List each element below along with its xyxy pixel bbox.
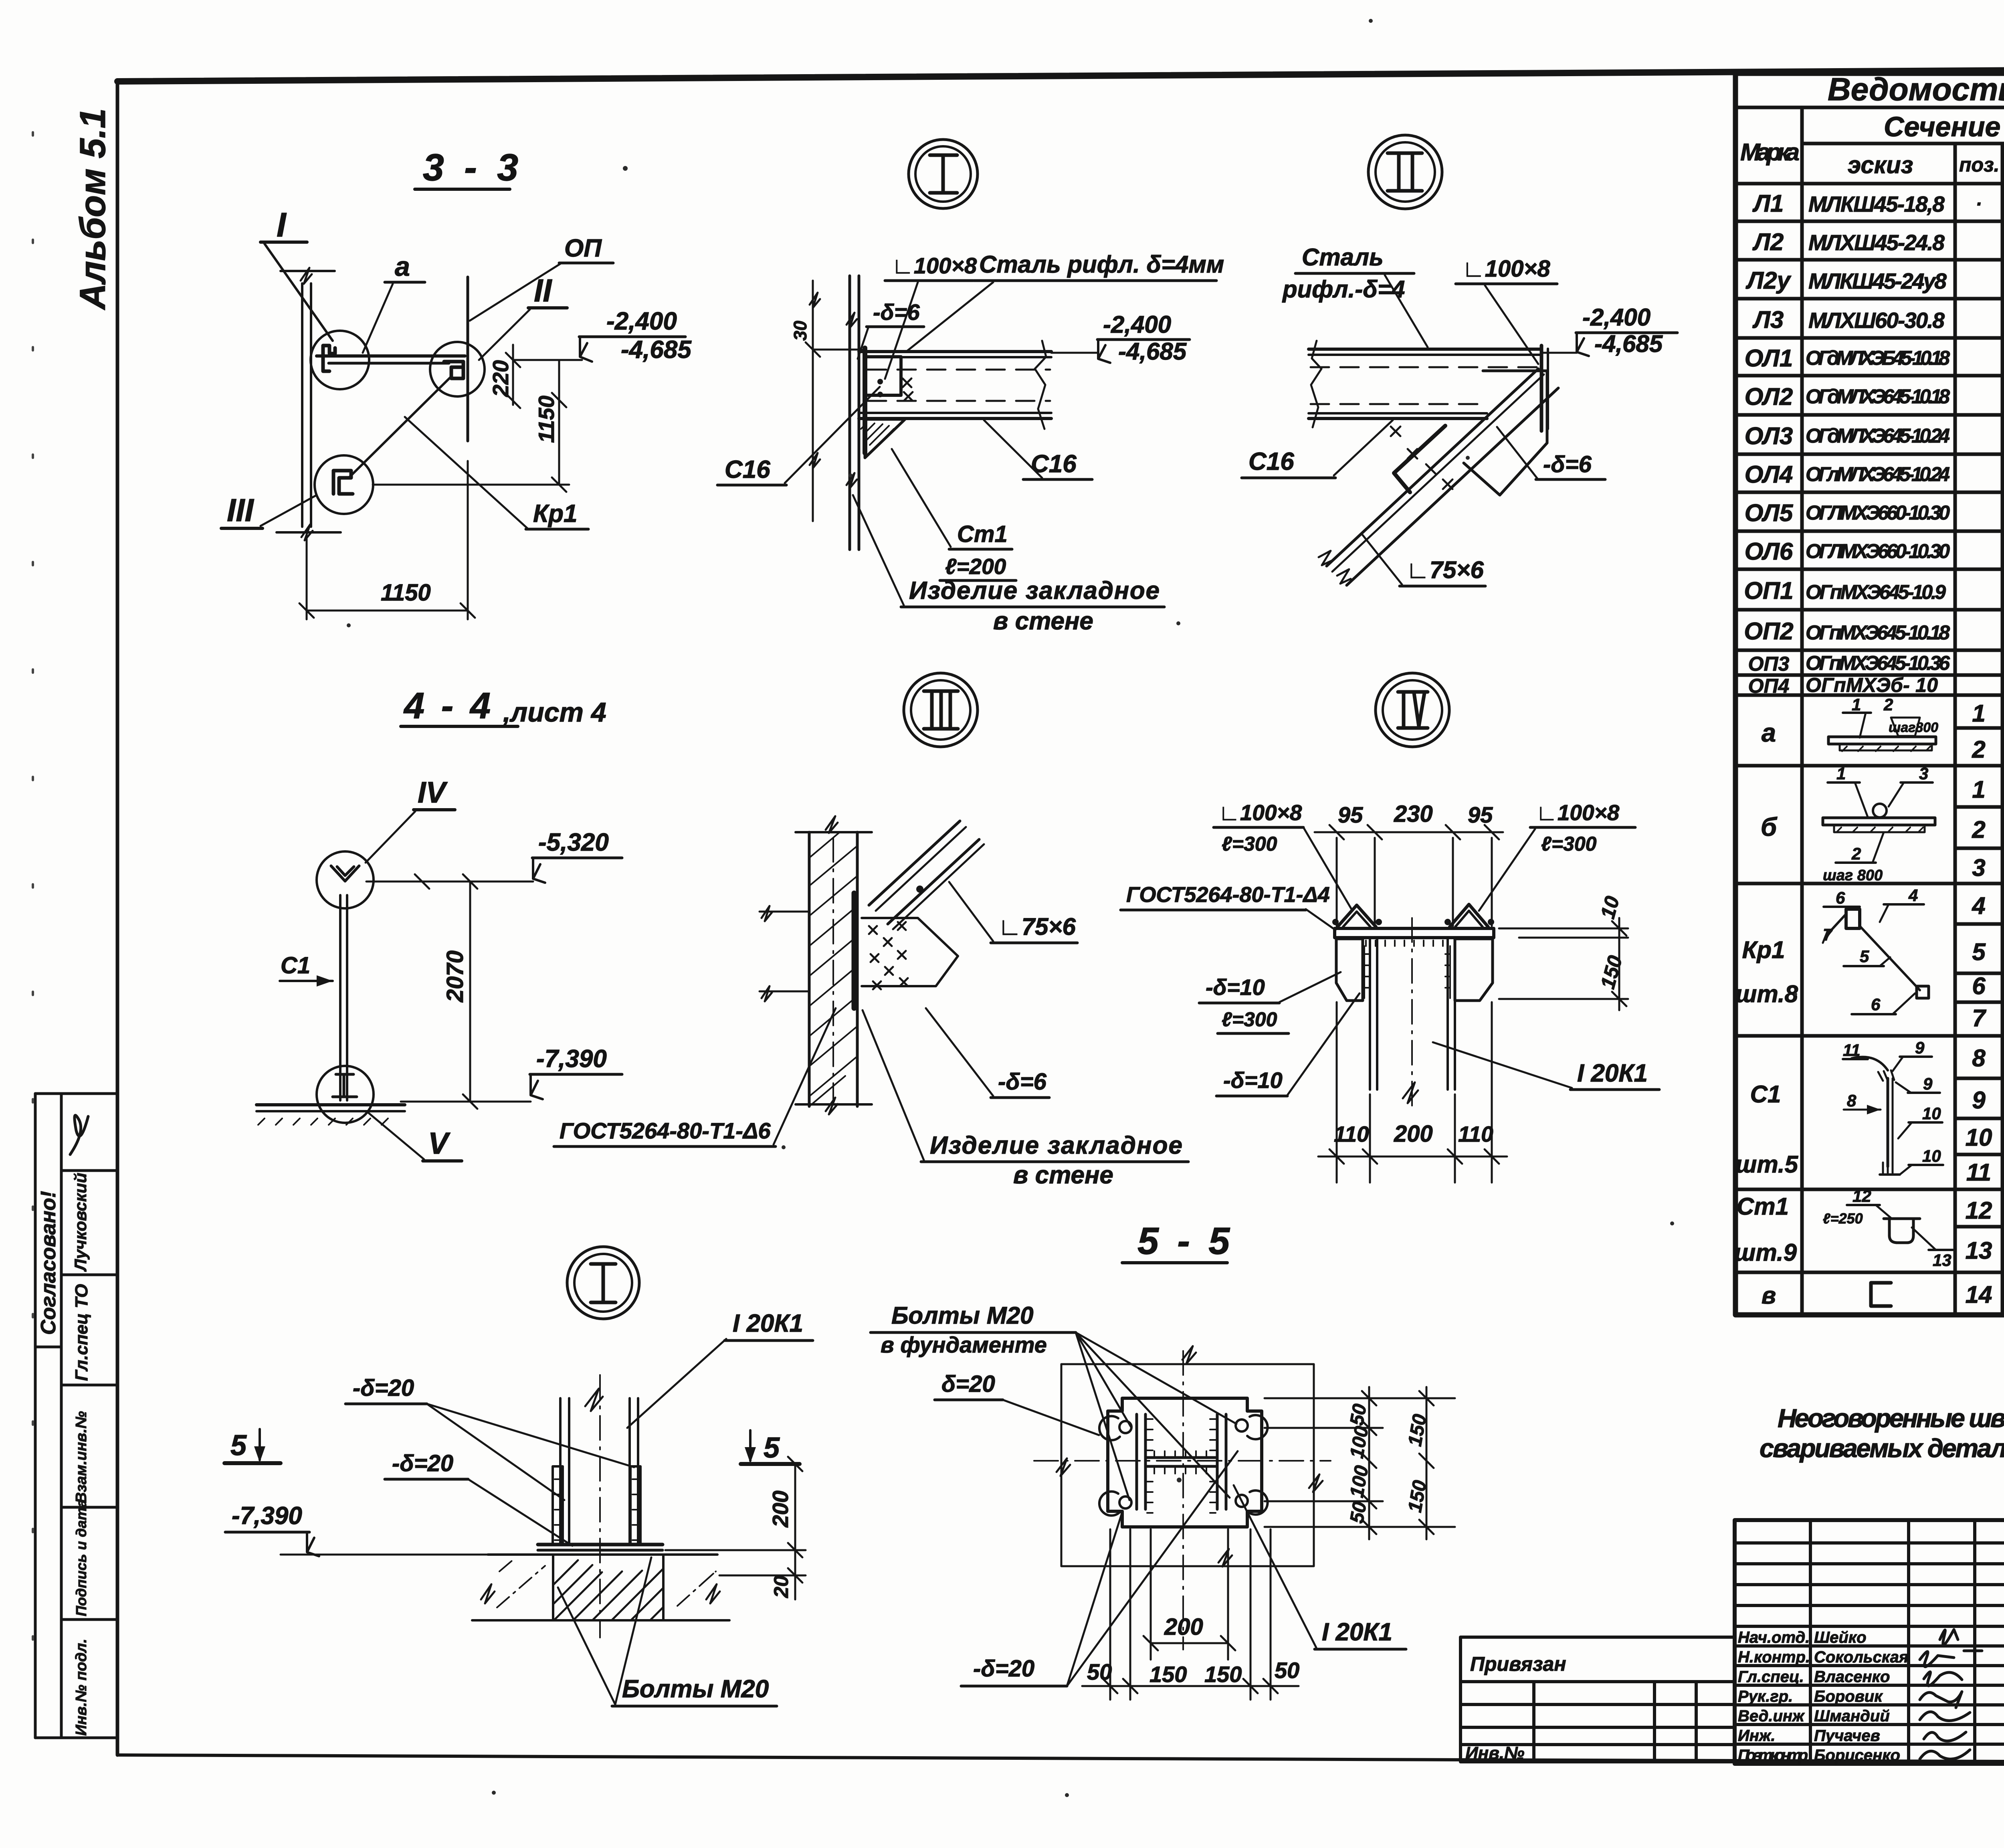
detail II top	[1242, 135, 1677, 586]
svg-text:2070: 2070	[442, 950, 468, 1003]
svg-text:III: III	[227, 492, 254, 528]
outer border	[1735, 73, 2004, 1315]
detail circle III	[904, 673, 978, 747]
svg-text:-4,685: -4,685	[1118, 338, 1187, 365]
left page edge dashes	[32, 132, 34, 1676]
svg-text:9: 9	[1972, 1087, 1986, 1114]
svg-text:1: 1	[1852, 695, 1861, 714]
svg-text:С1: С1	[281, 952, 310, 979]
plate	[1335, 928, 1494, 938]
gusset console below beam	[865, 419, 905, 458]
detail III	[760, 673, 1188, 1189]
svg-text:-δ=6: -δ=6	[998, 1069, 1047, 1095]
svg-text:50: 50	[1087, 1659, 1112, 1684]
bottom beam	[257, 1103, 405, 1106]
gusset	[862, 918, 958, 986]
svg-text:3 - 3: 3 - 3	[423, 146, 523, 189]
svg-text:30: 30	[790, 321, 810, 341]
svg-text:I 20К1: I 20К1	[1322, 1618, 1392, 1646]
svg-text:Боровик: Боровик	[1814, 1688, 1883, 1705]
svg-text:-4,685: -4,685	[621, 336, 692, 364]
title row bottom	[1735, 106, 2004, 109]
svg-text:ОП3: ОП3	[1748, 653, 1790, 675]
svg-text:Кр1: Кр1	[1742, 936, 1785, 963]
svg-text:ОГпМХЭб- 10: ОГпМХЭб- 10	[1806, 674, 1938, 696]
table sketch row Kr1	[1823, 886, 1929, 1014]
svg-text:220: 220	[488, 360, 513, 397]
svg-text:Л1: Л1	[1752, 190, 1784, 217]
svg-text:1: 1	[1836, 764, 1846, 783]
svg-text:150: 150	[1149, 1662, 1187, 1687]
svg-text:δ=20: δ=20	[941, 1371, 995, 1397]
gusset plate -d=6	[1464, 371, 1547, 495]
base plate	[538, 1543, 663, 1547]
svg-text:Согласовано!: Согласовано!	[37, 1191, 60, 1335]
I beam cross-section	[1135, 1414, 1138, 1509]
svg-text:200: 200	[1164, 1614, 1203, 1640]
table sketch row a	[1828, 695, 1938, 751]
dim 220	[512, 345, 514, 405]
svg-text:б: б	[1761, 812, 1778, 841]
table data : eskiz column texts	[1806, 192, 1950, 696]
svg-text:ℓ=200: ℓ=200	[945, 554, 1006, 579]
svg-text:200: 200	[768, 1490, 793, 1528]
privyazan table	[1461, 1637, 1735, 1762]
svg-text:14: 14	[1966, 1281, 1992, 1308]
svg-text:I: I	[277, 206, 287, 244]
svg-text:5: 5	[1860, 947, 1869, 966]
svg-text:10: 10	[1922, 1104, 1941, 1123]
detail circle I	[567, 1247, 639, 1319]
center lines	[1182, 1351, 1184, 1650]
svg-text:1: 1	[1972, 700, 1985, 727]
svg-text:∟100×8: ∟100×8	[1462, 256, 1550, 282]
svg-text:ℓ=300: ℓ=300	[1222, 1008, 1277, 1031]
svg-text:Болты М20: Болты М20	[891, 1302, 1033, 1329]
svg-text:-δ=20: -δ=20	[392, 1450, 453, 1476]
svg-text:10: 10	[1922, 1146, 1941, 1165]
svg-text:ℓ=300: ℓ=300	[1222, 833, 1277, 855]
angle clip on diagonal	[1394, 426, 1445, 492]
svg-text:С16: С16	[725, 456, 770, 483]
anchor plates	[553, 1466, 563, 1544]
I beam verticals	[1369, 938, 1371, 1090]
svg-text:∟75×6: ∟75×6	[998, 913, 1076, 940]
svg-text:Н.контр.: Н.контр.	[1738, 1648, 1810, 1666]
wall axis dash-dot	[832, 838, 834, 1100]
bottom joint circle	[317, 1066, 374, 1123]
svg-text:Изделие закладное: Изделие закладное	[909, 577, 1160, 605]
svg-text:Неоговоренные швы принять п: Неоговоренные швы принять по наименьшей …	[1778, 1403, 2004, 1433]
svg-text:ОГЛМХЭ660-10.30: ОГЛМХЭ660-10.30	[1806, 501, 1950, 524]
svg-text:ОП1: ОП1	[1744, 577, 1793, 604]
weld crosses	[869, 922, 908, 989]
detail circle II	[1368, 135, 1442, 209]
detail IV	[1121, 673, 1659, 1183]
svg-text:50: 50	[1275, 1658, 1299, 1683]
svg-text:Вед.инж: Вед.инж	[1738, 1707, 1805, 1725]
svg-text:8: 8	[1972, 1045, 1986, 1072]
svg-text:Изделие закладное: Изделие закладное	[930, 1132, 1182, 1159]
table data : marka column	[1734, 190, 1799, 1309]
diagonal Kr1	[349, 377, 451, 477]
svg-text:Ведомость: Ведомость	[1828, 71, 2004, 107]
svg-text:ОГпМХЭ645-10.36: ОГпМХЭ645-10.36	[1806, 652, 1950, 674]
svg-text:-7,390: -7,390	[232, 1502, 302, 1530]
svg-text:МЛХШ60-30.8: МЛХШ60-30.8	[1808, 308, 1945, 333]
svg-text:II: II	[534, 273, 552, 308]
svg-text:ОГлМЛХЭ645-10.24: ОГлМЛХЭ645-10.24	[1806, 463, 1950, 485]
svg-text:230: 230	[1394, 801, 1433, 827]
svg-text:2: 2	[1972, 736, 1985, 763]
svg-text:ОЛ1: ОЛ1	[1745, 345, 1793, 372]
svg-text:I 20К1: I 20К1	[733, 1310, 803, 1337]
svg-text:Пучачев: Пучачев	[1814, 1727, 1880, 1745]
beam channel horizontal	[1309, 348, 1541, 351]
left stamp strip	[35, 1094, 117, 1738]
svg-text:1150: 1150	[381, 580, 431, 606]
svg-text:95: 95	[1468, 802, 1493, 827]
joint circle 2	[430, 342, 485, 396]
svg-text:7: 7	[1972, 1005, 1986, 1031]
svg-text:-δ=10: -δ=10	[1223, 1068, 1283, 1093]
svg-text:а: а	[1762, 718, 1776, 747]
svg-text:-7,390: -7,390	[536, 1045, 607, 1073]
svg-text:ОГдМЛХЭ645-10.18: ОГдМЛХЭ645-10.18	[1806, 385, 1950, 408]
svg-text:ОЛ2: ОЛ2	[1745, 383, 1793, 410]
svg-text:Привязан: Привязан	[1470, 1653, 1566, 1675]
top dims 95 230 95	[1315, 831, 1503, 833]
header mid line under Сечение / Опорные усилия	[1802, 142, 2004, 146]
svg-text:,лист 4: ,лист 4	[503, 697, 606, 728]
table sketch row v	[1871, 1283, 1891, 1306]
svg-text:Шмандий: Шмандий	[1814, 1707, 1890, 1725]
svg-text:10: 10	[1596, 894, 1624, 921]
svg-text:в стене: в стене	[993, 607, 1093, 635]
left angle clip	[1337, 905, 1376, 927]
svg-text:ОГпМХЭ645-10.18: ОГпМХЭ645-10.18	[1806, 621, 1950, 644]
svg-text:свариваемых деталей.: свариваемых деталей.	[1760, 1434, 2004, 1463]
svg-text:шаг 800: шаг 800	[1823, 867, 1883, 884]
table data : poz + sostav columns	[1976, 194, 2004, 696]
floor break lines	[760, 911, 809, 913]
svg-text:3: 3	[1972, 854, 1985, 881]
beam horizontal	[317, 354, 465, 358]
elements table : grid	[1735, 73, 2004, 1315]
anchor bolts	[1119, 1421, 1131, 1433]
svg-text:ОЛ3: ОЛ3	[1745, 423, 1793, 449]
column shaft	[559, 1398, 562, 1544]
svg-text:50: 50	[1346, 1402, 1371, 1427]
svg-text:-2,400: -2,400	[1582, 304, 1650, 331]
svg-text:Сокольская: Сокольская	[1814, 1648, 1908, 1666]
svg-text:ГОСТ5264-80-Т1-Δ4: ГОСТ5264-80-Т1-Δ4	[1126, 883, 1330, 907]
svg-text:95: 95	[1338, 802, 1363, 827]
detail I top	[717, 140, 1224, 635]
base plate plan with notched corners	[1108, 1398, 1262, 1527]
dim 1150 vertical	[558, 360, 560, 485]
svg-text:4: 4	[1908, 886, 1918, 905]
column verticals	[1800, 107, 1804, 1315]
svg-text:∟100×8: ∟100×8	[892, 253, 977, 278]
svg-text:Альбом 5.1: Альбом 5.1	[73, 108, 113, 310]
top joint circle	[317, 851, 374, 908]
svg-text:Кр1: Кр1	[533, 500, 577, 528]
svg-text:эскиз: эскиз	[1848, 152, 1913, 178]
svg-text:7: 7	[1823, 925, 1833, 944]
поз sub-row lines	[1955, 726, 2004, 730]
section 3-3	[221, 146, 692, 619]
svg-text:шт.8: шт.8	[1735, 981, 1798, 1007]
right dims 200 / 20	[665, 1549, 806, 1551]
bottom dim 1150	[306, 537, 308, 619]
svg-text:в: в	[1762, 1282, 1776, 1309]
wall hatch	[809, 832, 857, 1106]
svg-text:Повт.контр: Повт.контр	[1738, 1747, 1808, 1764]
svg-text:ОП4: ОП4	[1748, 675, 1790, 697]
svg-text:Взам.инв.№: Взам.инв.№	[73, 1411, 90, 1503]
svg-text:9: 9	[1923, 1074, 1933, 1093]
embedded plate	[863, 348, 867, 453]
svg-text:ОЛ5: ОЛ5	[1745, 499, 1794, 526]
diagonal stringer	[1327, 369, 1538, 566]
svg-text:шаг800: шаг800	[1889, 720, 1938, 735]
svg-text:13: 13	[1933, 1251, 1951, 1270]
svg-text:Инв.№: Инв.№	[1465, 1743, 1524, 1763]
svg-text:ОГдМЛХЭБ45-10.18: ОГдМЛХЭБ45-10.18	[1806, 347, 1950, 369]
svg-text:Л3: Л3	[1752, 306, 1784, 333]
svg-text:9: 9	[1915, 1038, 1925, 1057]
svg-text:-δ=20: -δ=20	[973, 1656, 1034, 1682]
svg-text:Инж.: Инж.	[1738, 1727, 1776, 1745]
end plate	[1540, 346, 1543, 431]
signature squiggle in stamp	[70, 1115, 88, 1154]
svg-text:∟75×6: ∟75×6	[1406, 556, 1484, 583]
svg-text:Ст1: Ст1	[957, 521, 1008, 547]
svg-text:шт.9: шт.9	[1734, 1239, 1797, 1266]
svg-text:V: V	[428, 1126, 450, 1161]
svg-text:110: 110	[1458, 1122, 1493, 1146]
svg-text:-5,320: -5,320	[538, 829, 609, 856]
svg-text:-δ=20: -δ=20	[353, 1375, 414, 1401]
diagonal stringer	[869, 821, 960, 905]
svg-text:-4,685: -4,685	[1594, 330, 1663, 357]
section 5-5	[871, 1220, 1455, 1700]
post C1 double line	[339, 895, 341, 1100]
svg-text:Шейко: Шейко	[1814, 1629, 1867, 1646]
svg-text:Сталь рифл. δ=4мм: Сталь рифл. δ=4мм	[979, 251, 1224, 278]
title block : signature table	[1735, 1520, 2004, 1764]
svg-text:ОГпМХЭ645-10.9: ОГпМХЭ645-10.9	[1806, 581, 1946, 603]
right thickness dims	[1499, 928, 1628, 930]
detail circle IV	[1376, 673, 1449, 747]
svg-text:I 20К1: I 20К1	[1577, 1059, 1648, 1087]
svg-text:а: а	[395, 251, 410, 282]
svg-text:Власенко: Власенко	[1814, 1668, 1890, 1686]
svg-text:в стене: в стене	[1013, 1161, 1113, 1189]
svg-text:ОГдМЛХЭ645-10.24: ОГдМЛХЭ645-10.24	[1806, 425, 1950, 447]
svg-text:Гл.спец.: Гл.спец.	[1738, 1668, 1804, 1686]
svg-text:1: 1	[1972, 776, 1985, 803]
beam channel horizontal	[859, 350, 1051, 353]
svg-text:5 - 5: 5 - 5	[1137, 1220, 1234, 1262]
dim 30 with vertical dim line	[812, 281, 814, 521]
svg-text:150: 150	[1596, 953, 1627, 991]
svg-text:Марка: Марка	[1740, 139, 1800, 166]
svg-text:-δ=6: -δ=6	[1543, 451, 1592, 477]
svg-text:3: 3	[1919, 764, 1928, 783]
svg-text:110: 110	[1334, 1122, 1369, 1146]
svg-text:поз.: поз.	[1959, 154, 2000, 176]
svg-text:С1: С1	[1750, 1081, 1781, 1108]
svg-text:ОЛ6: ОЛ6	[1745, 538, 1793, 565]
svg-text:12: 12	[1966, 1197, 1992, 1224]
svg-text:МЛКШ45-18,8: МЛКШ45-18,8	[1808, 192, 1945, 216]
left post double line	[301, 283, 303, 527]
table sketch row b	[1823, 764, 1935, 884]
svg-text:Лучковский: Лучковский	[71, 1173, 90, 1272]
svg-text:Нач.отд.: Нач.отд.	[1738, 1629, 1810, 1646]
signatures squiggles	[1920, 1630, 1982, 1759]
detail I bottom	[224, 1247, 813, 1706]
svg-text:∟100×8: ∟100×8	[1536, 800, 1620, 825]
joint circle 3	[315, 455, 373, 514]
svg-text:в фундаменте: в фундаменте	[881, 1332, 1047, 1357]
svg-text:С16: С16	[1248, 448, 1294, 475]
header bottom	[1735, 182, 2004, 186]
svg-text:Л2у: Л2у	[1745, 267, 1792, 294]
svg-text:Подпись и дата: Подпись и дата	[73, 1499, 89, 1616]
svg-text:Болты М20: Болты М20	[622, 1675, 769, 1703]
svg-text:шт.5: шт.5	[1735, 1151, 1799, 1178]
dim 2070	[469, 882, 471, 1102]
svg-text:-δ=6: -δ=6	[873, 299, 920, 325]
gussets below plate	[1336, 939, 1363, 1001]
svg-text:5: 5	[230, 1429, 247, 1462]
wall verticals	[808, 832, 811, 1106]
svg-text:МЛХШ45-24.8: МЛХШ45-24.8	[1808, 230, 1945, 255]
svg-text:ℓ=300: ℓ=300	[1541, 833, 1597, 855]
dim line 50 150 150 50	[1082, 1685, 1299, 1687]
bottom dims extension lines	[1109, 1529, 1111, 1700]
right angle clip	[1450, 904, 1488, 927]
data row lines	[1735, 220, 2004, 223]
table sketch row Ct1	[1823, 1187, 1953, 1270]
svg-text:ОП2: ОП2	[1744, 618, 1793, 645]
table sketch row C1	[1843, 1038, 1943, 1175]
svg-text:Л2: Л2	[1752, 228, 1784, 255]
svg-text:13: 13	[1966, 1237, 1992, 1264]
joint circle 1	[311, 331, 369, 389]
wall double line	[848, 276, 851, 550]
svg-text:11: 11	[1843, 1041, 1861, 1059]
svg-text:4: 4	[1972, 892, 1985, 919]
svg-text:1150: 1150	[534, 395, 559, 443]
embedded plate	[852, 893, 857, 1008]
weld comb ticks	[1147, 1419, 1153, 1513]
detail circle I	[909, 140, 978, 208]
svg-text:2: 2	[1883, 695, 1893, 714]
right side dims 50 100 100 50 / 150 150	[1265, 1397, 1455, 1399]
svg-text:2: 2	[1972, 816, 1985, 843]
svg-text:IV: IV	[418, 776, 448, 809]
svg-text:Рук.гр.: Рук.гр.	[1738, 1688, 1793, 1705]
svg-text:Борисенко: Борисенко	[1814, 1747, 1900, 1764]
svg-text:5: 5	[764, 1432, 780, 1464]
svg-text:50: 50	[1346, 1500, 1371, 1525]
svg-text:Инв.№ подл.: Инв.№ подл.	[73, 1639, 90, 1736]
svg-text:150: 150	[1204, 1662, 1242, 1687]
svg-text:-δ=10: -δ=10	[1206, 975, 1265, 1000]
svg-text:6: 6	[1836, 888, 1845, 907]
svg-text:6: 6	[1972, 973, 1986, 999]
svg-text:4 - 4: 4 - 4	[403, 685, 494, 726]
svg-text:ℓ=250: ℓ=250	[1823, 1210, 1863, 1227]
section 4-4	[257, 685, 836, 1161]
weld ticks under plate	[1366, 940, 1443, 946]
album 5.1 label	[73, 108, 113, 310]
bottom dims 110 200 110	[1336, 1002, 1338, 1183]
svg-text:ГОСТ5264-80-Т1-Δ6: ГОСТ5264-80-Т1-Δ6	[560, 1118, 771, 1143]
svg-text:ОЛ4: ОЛ4	[1745, 461, 1793, 488]
svg-text:∟100×8: ∟100×8	[1218, 800, 1302, 825]
svg-text:2: 2	[1851, 844, 1861, 863]
assembly group row lines (full width)	[1735, 764, 2004, 768]
svg-text:8: 8	[1847, 1091, 1857, 1110]
foundation	[488, 1553, 717, 1556]
svg-text:-2,400: -2,400	[1103, 311, 1171, 338]
dim 200	[1151, 1642, 1228, 1644]
svg-text:Гл.спец ТО: Гл.спец ТО	[72, 1284, 91, 1381]
OP post	[467, 277, 469, 441]
outer boundary rect	[1061, 1364, 1314, 1566]
scan specks	[347, 19, 2004, 1797]
svg-text:·: ·	[1976, 194, 1982, 215]
svg-text:5: 5	[1972, 938, 1986, 965]
connection angle at wall	[865, 357, 901, 395]
svg-text:ОП: ОП	[564, 235, 602, 262]
svg-text:11: 11	[1966, 1159, 1991, 1186]
svg-text:МЛКШ45-24у8: МЛКШ45-24у8	[1808, 269, 1947, 293]
svg-text:6: 6	[1871, 995, 1881, 1014]
svg-text:10: 10	[1966, 1124, 1992, 1151]
svg-text:200: 200	[1394, 1121, 1433, 1147]
svg-text:Ст1: Ст1	[1737, 1193, 1789, 1220]
svg-text:Сталь: Сталь	[1302, 244, 1384, 271]
svg-text:20: 20	[770, 1575, 792, 1598]
svg-text:-2,400: -2,400	[606, 307, 677, 335]
svg-text:ОГЛМХЭ660-10.30: ОГЛМХЭ660-10.30	[1806, 540, 1950, 562]
svg-text:Сечение: Сечение	[1884, 111, 2000, 142]
svg-text:12: 12	[1852, 1187, 1871, 1205]
